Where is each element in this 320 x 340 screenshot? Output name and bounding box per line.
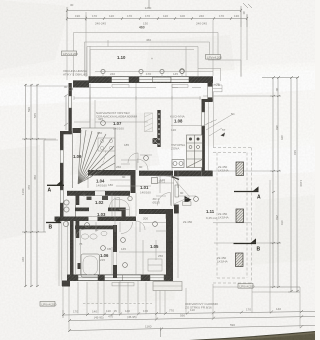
svg-text:770: 770 [169,309,174,313]
svg-text:460: 460 [146,38,151,42]
svg-text:LKS/HA: LKS/HA [218,169,229,173]
svg-text:640: 640 [293,150,297,155]
svg-text:+75: +75 [214,83,220,87]
svg-text:565: 565 [33,113,37,118]
svg-text:180: 180 [97,131,102,135]
svg-text:140: 140 [92,309,97,313]
svg-text:ATIKY S OBKLAD.: ATIKY S OBKLAD. [63,73,88,77]
svg-text:250: 250 [158,254,163,258]
svg-text:590: 590 [230,323,235,327]
svg-text:ZO STRKU FR.8/16: ZO STRKU FR.8/16 [185,306,212,310]
svg-text:170: 170 [146,72,151,76]
svg-text:LPV+4,200: LPV+4,200 [207,56,222,60]
svg-text:90: 90 [180,191,184,195]
svg-text:Ø150: Ø150 [153,201,161,205]
svg-text:170: 170 [92,14,97,18]
svg-text:1.07: 1.07 [113,121,122,126]
svg-text:470: 470 [108,315,113,319]
svg-text:1160: 1160 [299,180,303,187]
svg-text:200: 200 [143,217,148,221]
svg-text:340: 340 [21,257,25,262]
svg-text:90: 90 [95,228,99,232]
svg-text:1.10: 1.10 [117,55,126,60]
svg-text:120: 120 [171,128,176,132]
svg-text:1160: 1160 [21,188,25,195]
svg-text:90: 90 [275,88,279,92]
svg-text:260: 260 [116,165,121,169]
svg-text:1.02: 1.02 [95,200,104,205]
svg-text:240-245: 240-245 [196,22,207,26]
svg-text:110: 110 [106,309,111,313]
svg-text:190: 190 [75,14,80,18]
svg-text:CERAMICKA KLADBA 600MM: CERAMICKA KLADBA 600MM [96,115,138,119]
svg-text:1.05: 1.05 [150,244,159,249]
svg-text:90: 90 [64,85,68,89]
svg-text:170: 170 [219,14,224,18]
svg-text:1160: 1160 [145,324,152,328]
svg-text:+: + [151,57,153,61]
svg-text:450: 450 [33,175,37,180]
svg-text:250: 250 [275,215,279,220]
svg-text:KB: KB [107,247,111,251]
svg-text:1.09: 1.09 [73,154,82,159]
svg-text:380: 380 [275,125,279,130]
svg-text:Zk.450: Zk.450 [183,220,193,224]
svg-text:30: 30 [70,3,74,7]
svg-text:470: 470 [27,185,31,190]
svg-text:140/160: 140/160 [96,184,107,188]
svg-text:470: 470 [280,220,284,225]
svg-text:180: 180 [108,183,113,187]
svg-text:170: 170 [127,14,132,18]
svg-text:1.03: 1.03 [97,212,106,217]
svg-text:170: 170 [246,308,251,312]
svg-text:140/160: 140/160 [113,127,124,131]
svg-text:120: 120 [163,14,168,18]
svg-text:(45-95): (45-95) [127,315,137,319]
svg-text:1.08: 1.08 [174,119,183,124]
svg-text:145: 145 [173,72,178,76]
svg-text:LPV+4,200: LPV+4,200 [63,52,78,56]
svg-text:ZONA: ZONA [171,147,179,151]
svg-text:1290: 1290 [145,6,152,10]
svg-text:140: 140 [276,307,281,311]
svg-text:130: 130 [234,14,239,18]
svg-text:B: B [257,246,261,252]
svg-text:170: 170 [145,14,150,18]
svg-text:(45-95): (45-95) [94,315,104,319]
svg-text:90: 90 [122,175,126,179]
svg-text:1.11: 1.11 [206,209,215,214]
svg-text:140/160: 140/160 [140,191,151,195]
svg-text:30: 30 [242,11,246,15]
svg-text:185: 185 [124,143,129,147]
svg-text:LKS/HA: LKS/HA [218,216,229,220]
svg-text:365: 365 [280,135,284,140]
svg-text:170: 170 [73,310,78,314]
svg-text:460: 460 [139,26,145,30]
svg-text:15: 15 [114,309,118,313]
svg-text:ZR.1: ZR.1 [159,180,166,184]
svg-text:590: 590 [180,313,185,317]
svg-text:120: 120 [109,14,114,18]
svg-text:LKS/HA: LKS/HA [217,260,228,264]
svg-text:100: 100 [180,14,185,18]
svg-text:LPV+4,200: LPV+4,200 [240,285,255,289]
svg-text:5T: 5T [222,128,226,132]
svg-text:590: 590 [27,107,31,112]
svg-text:90: 90 [139,165,143,169]
svg-text:KUCHYNA: KUCHYNA [170,115,185,119]
svg-text:140: 140 [125,309,130,313]
svg-text:1.01: 1.01 [140,185,149,190]
svg-text:A: A [257,194,261,200]
svg-text:240: 240 [110,72,115,76]
svg-text:75: 75 [79,242,83,246]
svg-text:B: B [49,225,53,231]
svg-text:170: 170 [143,309,148,313]
svg-text:240-245: 240-245 [95,22,106,26]
svg-text:145: 145 [121,247,126,251]
svg-text:LPV+4,200: LPV+4,200 [42,303,57,307]
svg-text:215: 215 [100,258,105,262]
svg-text:240: 240 [199,14,204,18]
svg-text:A: A [48,187,52,193]
svg-text:9,45 m2: 9,45 m2 [206,216,217,220]
